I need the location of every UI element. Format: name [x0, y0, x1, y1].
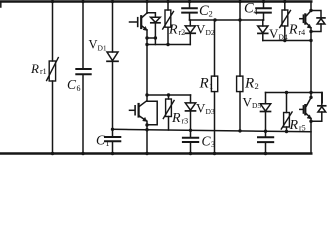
transistor T1 (IGBT) — [130, 13, 148, 31]
svg-text:D4: D4 — [279, 33, 288, 42]
transistor T3 (IGBT) — [130, 101, 147, 122]
wire T3 freewheel loop — [147, 101, 157, 125]
wire VD1 branch — [112, 2, 114, 130]
svg-text:R: R — [244, 75, 254, 91]
label Rr4 — [288, 23, 305, 38]
wire T4 collector node line y92.5 — [266, 93, 323, 103]
capacitor C2 — [189, 2, 191, 21]
svg-text:6: 6 — [77, 84, 81, 93]
wire snubber return line y39.5 — [263, 40, 311, 42]
svg-text:r3: r3 — [182, 117, 189, 126]
wire clamp node line y20 — [190, 19, 264, 21]
svg-text:2: 2 — [209, 9, 213, 19]
diode VD4 — [262, 20, 264, 41]
capacitor C5 (snubber cap, unlabeled) — [265, 131, 267, 153]
transistor T4 (IGBT) — [300, 98, 311, 119]
resistor R1 — [214, 20, 216, 154]
diode T2 antiparallel — [317, 18, 325, 24]
resistor Rr5 (varistor) — [281, 112, 292, 129]
svg-text:R: R — [168, 23, 178, 38]
svg-text:V: V — [243, 95, 253, 110]
svg-text:R: R — [288, 23, 298, 38]
wire T1 emitter node — [147, 38, 155, 45]
label VD1 — [89, 38, 107, 53]
svg-text:R: R — [199, 75, 209, 91]
diode VD2 — [189, 20, 191, 45]
capacitor C6 — [76, 69, 90, 74]
svg-text:C: C — [96, 133, 106, 148]
svg-text:r2: r2 — [179, 28, 186, 37]
svg-text:2: 2 — [255, 81, 259, 91]
wire top bus — [0, 0, 311, 2]
svg-text:1: 1 — [106, 139, 110, 148]
svg-text:D3: D3 — [206, 107, 215, 116]
diode VD5 — [265, 93, 267, 132]
label R2 — [244, 75, 259, 91]
node T1 emitter junctions — [145, 36, 169, 46]
node left edge stub — [0, 2, 2, 8]
label VD3 — [196, 101, 215, 117]
svg-text:V: V — [196, 22, 206, 37]
wire right leg — [310, 2, 312, 154]
svg-text:r4: r4 — [299, 28, 306, 37]
capacitor C3 — [190, 130, 192, 153]
resistor Rr4 (varistor) — [280, 10, 291, 28]
node T4 collector line junctions — [285, 91, 313, 99]
wire T3 collector node line y95 — [147, 94, 191, 96]
wire Rr3 branch — [168, 95, 170, 130]
wire C6 branch — [82, 2, 84, 154]
label VD5 — [243, 95, 262, 111]
svg-text:3: 3 — [211, 140, 215, 149]
wire left leg — [146, 2, 148, 154]
diode T4 antiparallel — [318, 106, 326, 112]
junctions on bottom bus — [51, 152, 267, 155]
label C1 — [96, 133, 110, 149]
wire Rr2 branch — [167, 2, 169, 45]
label C2 — [199, 3, 213, 19]
label R1 — [199, 75, 214, 91]
capacitor C4 — [263, 2, 265, 21]
label VD4 — [269, 26, 288, 42]
transistor T2 (IGBT) — [300, 11, 311, 29]
wire T4 diode jog — [311, 93, 322, 122]
label C6 — [67, 77, 81, 93]
svg-text:r1: r1 — [40, 67, 47, 76]
svg-text:C: C — [199, 3, 209, 19]
svg-text:C: C — [244, 1, 254, 17]
junctions on top bus — [51, 0, 287, 3]
capacitor C1 — [112, 129, 114, 153]
label C3 — [202, 134, 216, 150]
diode VD1 — [107, 52, 118, 61]
label C4 — [244, 1, 259, 17]
resistor Rr1 (varistor) — [47, 58, 59, 81]
wire bottom bus — [0, 152, 311, 154]
svg-text:C: C — [202, 134, 212, 149]
svg-text:1: 1 — [209, 81, 213, 91]
wire snubber return line y44.5 — [147, 44, 190, 46]
label Rr5 — [289, 118, 306, 133]
label Rr1 — [30, 61, 47, 76]
label VD2 — [196, 22, 215, 38]
svg-text:V: V — [196, 101, 206, 116]
wire Rr5 branch — [286, 93, 288, 132]
node T3 emitter junction — [145, 123, 148, 126]
label Rr3 — [171, 111, 188, 126]
svg-text:D2: D2 — [206, 28, 215, 37]
wire T1 diode jog — [147, 13, 155, 38]
svg-text:V: V — [89, 38, 98, 52]
svg-text:R: R — [289, 118, 299, 133]
node clamp line junctions — [213, 18, 241, 21]
wire mid rail — [113, 129, 312, 132]
svg-text:D5: D5 — [252, 101, 261, 110]
junctions on mid rail — [111, 120, 313, 134]
wire Rr1 branch — [52, 2, 54, 154]
svg-text:R: R — [171, 111, 181, 126]
label Rr2 — [168, 23, 185, 38]
resistor Rr3 (varistor) — [163, 99, 174, 119]
svg-text:r5: r5 — [299, 124, 306, 133]
diode T1 antiparallel — [151, 17, 161, 23]
resistor R2 — [239, 2, 241, 131]
wire T2 diode jog — [311, 11, 321, 32]
svg-text:C: C — [67, 77, 77, 92]
svg-text:D1: D1 — [98, 44, 107, 53]
node T3 collector line junctions — [145, 93, 170, 96]
node T2 junctions — [283, 9, 313, 42]
resistor Rr2 (varistor) — [163, 10, 174, 29]
wire Rr4 branch — [284, 2, 286, 41]
svg-text:V: V — [269, 26, 279, 41]
svg-text:R: R — [30, 61, 39, 76]
diode VD3 — [190, 95, 192, 130]
